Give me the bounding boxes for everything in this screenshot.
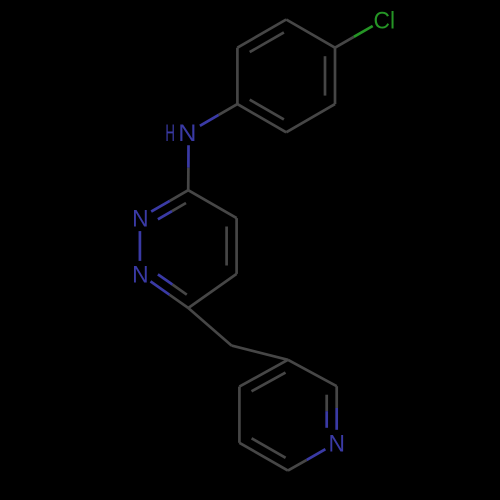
bond C5-C6 benzene xyxy=(286,104,335,132)
bond C4-C3 pyridazine xyxy=(188,190,236,218)
bond C6-CH2 linker xyxy=(188,308,231,346)
double bond C6=C5 pyridine xyxy=(239,438,288,470)
bond C3-C2 pyridine xyxy=(288,360,337,386)
bond C1-C2 benzene xyxy=(236,48,239,104)
svg-text:N: N xyxy=(328,430,344,457)
svg-text:Cl: Cl xyxy=(374,7,396,34)
double bond C2=N pyridine xyxy=(327,386,337,430)
bond N(H)-C1 benzene xyxy=(200,104,238,126)
bond N1-N2 pyridazine xyxy=(139,231,142,261)
bond N-C6 pyridine xyxy=(288,449,326,470)
double bond C4=C5 benzene xyxy=(325,48,335,104)
svg-text:N: N xyxy=(132,205,148,232)
bond CH2-C3 pyridine xyxy=(232,346,288,360)
bond C6-C5 pyridazine xyxy=(188,274,236,308)
svg-text:N: N xyxy=(178,121,196,147)
double bond C4=C3 pyridine xyxy=(239,360,288,392)
double bond N2=C6 pyridazine xyxy=(151,274,189,308)
svg-text:N: N xyxy=(132,261,148,288)
double bond C6=C1 benzene xyxy=(237,100,286,133)
bond C4-Cl xyxy=(335,26,373,48)
svg-text:H: H xyxy=(165,120,175,147)
double bond C2=C3 benzene xyxy=(237,20,286,53)
double bond C3=N1 pyridazine xyxy=(151,190,188,219)
double bond C5=C4 pyridazine xyxy=(227,218,237,274)
bond C5-C4 pyridine xyxy=(238,387,241,443)
bond C3-C4 benzene xyxy=(286,20,335,48)
bond N(H)-C3 pyridazine xyxy=(187,145,190,190)
